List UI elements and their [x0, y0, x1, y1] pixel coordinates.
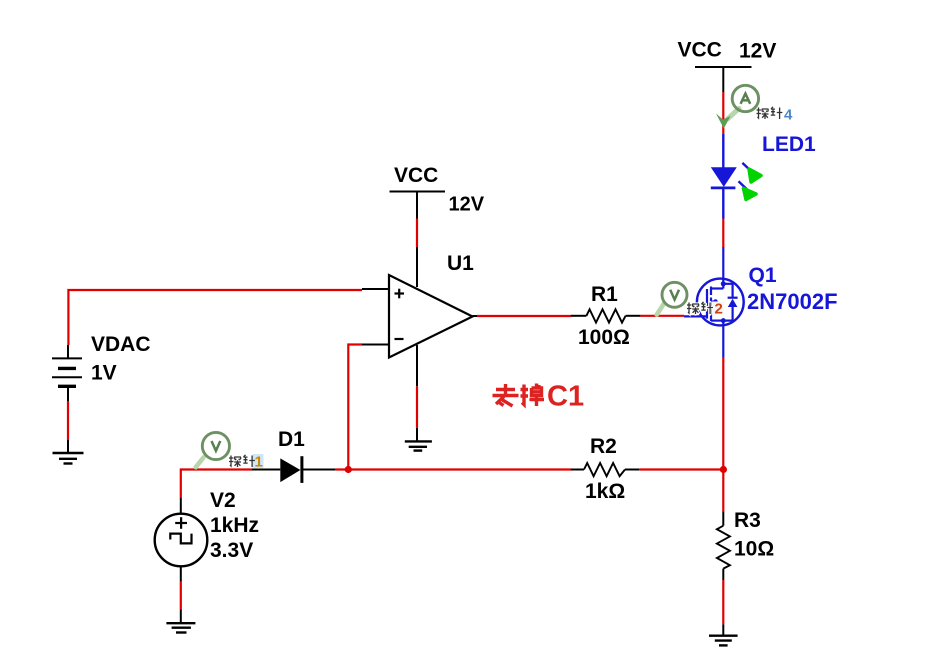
wire op-amp VCC red segment: [416, 219, 418, 248]
op-amp U1: [362, 247, 477, 386]
svg-text:4: 4: [784, 107, 793, 124]
wire op-amp V- to ground (red): [416, 386, 418, 428]
transistor Q1 2N7002F: [684, 247, 838, 358]
svg-text:U1: U1: [447, 252, 474, 275]
svg-text:LED1: LED1: [762, 133, 816, 156]
svg-text:C1: C1: [547, 381, 584, 413]
svg-text:3.3V: 3.3V: [210, 539, 253, 562]
label 探针4: [757, 107, 794, 124]
junction node (D1/R2/op-amp inverting): [345, 466, 352, 473]
wire R3 to ground: [722, 580, 724, 624]
ground (R3): [709, 624, 738, 645]
wire VDAC to ground: [67, 401, 69, 440]
label 探针1: [229, 454, 264, 471]
battery VDAC: [52, 333, 151, 401]
wire V2 to ground: [180, 582, 182, 610]
wire junction to op-amp inverting input: [348, 345, 362, 470]
svg-text:VCC: VCC: [678, 39, 722, 62]
wire VCC to LED (red segment): [722, 92, 724, 134]
wire bus V2 to junction (red segments): [181, 470, 724, 498]
svg-text:2: 2: [715, 301, 723, 318]
svg-text:D1: D1: [278, 428, 305, 451]
probe 探针1: [196, 432, 230, 467]
svg-text:1: 1: [255, 454, 263, 471]
svg-text:VDAC: VDAC: [91, 333, 151, 356]
LED LED1: [711, 133, 816, 219]
svg-text:1V: 1V: [91, 362, 117, 385]
svg-text:R2: R2: [590, 435, 617, 458]
wire junction to R3: [722, 470, 724, 512]
svg-text:R3: R3: [734, 509, 761, 532]
diode D1: [252, 428, 335, 483]
wire R1 to Q1 gate: [640, 315, 684, 317]
power symbol VCC (op-amp supply): [390, 164, 485, 219]
resistor R1: [571, 283, 641, 349]
wire VDAC to op-amp + input: [68, 290, 362, 345]
power symbol VCC (LED supply): [678, 39, 777, 93]
ground (VDAC): [53, 440, 84, 464]
svg-text:10Ω: 10Ω: [734, 538, 774, 561]
svg-text:R1: R1: [591, 283, 618, 306]
svg-text:12V: 12V: [449, 194, 485, 216]
label 探针2: [687, 301, 724, 318]
svg-text:1kHz: 1kHz: [210, 514, 259, 537]
probe 探针2: [657, 282, 687, 314]
annotation 去掉C1 (red note): [493, 381, 585, 413]
svg-text:100Ω: 100Ω: [578, 326, 630, 349]
junction node (R2/R3/Q1): [720, 466, 727, 473]
ground (op-amp): [405, 428, 432, 451]
wire op-amp output to R1: [477, 315, 571, 317]
source V2 (square wave): [155, 489, 259, 582]
svg-text:V2: V2: [210, 489, 236, 512]
svg-text:12V: 12V: [739, 40, 776, 63]
svg-text:2N7002F: 2N7002F: [747, 289, 838, 314]
svg-text:Q1: Q1: [749, 264, 777, 287]
ground (V2): [166, 609, 195, 632]
probe 探针4 (ammeter): [716, 85, 759, 128]
wire Q1 source to junction: [722, 358, 724, 470]
svg-text:1kΩ: 1kΩ: [585, 480, 625, 503]
svg-text:VCC: VCC: [394, 164, 438, 187]
resistor R3: [717, 509, 774, 580]
resistor R2: [571, 435, 639, 503]
wire LED to Q1 drain (red segment): [722, 219, 724, 248]
